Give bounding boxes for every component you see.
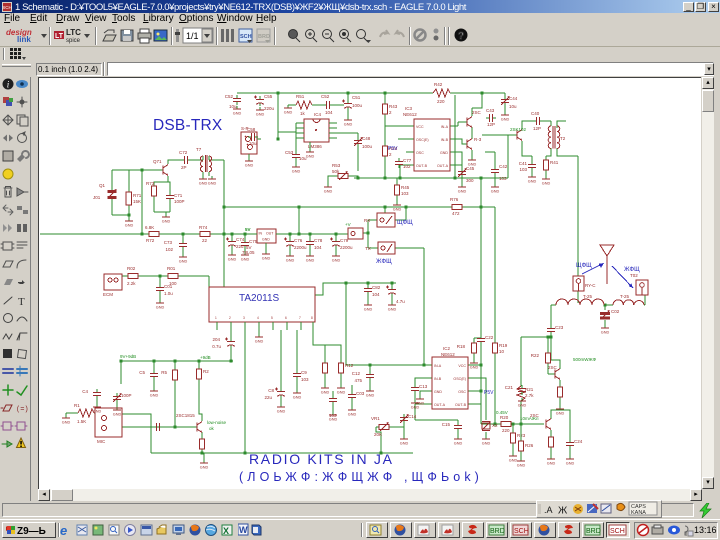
- ground below bus: [200, 460, 209, 470]
- resistor R24 emitter: [558, 384, 563, 400]
- capacitor C82: [364, 285, 381, 297]
- svg-text:103: 103: [301, 377, 309, 382]
- ground IC2: [416, 396, 425, 406]
- wire TA pin R drop: [313, 330, 341, 385]
- resistor R19 in rail: [493, 340, 508, 356]
- svg-text:IC4: IC4: [314, 112, 322, 117]
- svg-text:2: 2: [389, 152, 392, 157]
- svg-text:R74: R74: [199, 225, 208, 230]
- taskbar: [0, 519, 720, 540]
- wire RF amp top drops: [472, 93, 482, 116]
- svg-text:C24: C24: [574, 439, 583, 444]
- wire IC3 left pin stubs: [398, 126, 414, 178]
- variable capacitor C6: [113, 393, 132, 403]
- svg-text:C76: C76: [294, 238, 303, 243]
- help: [455, 29, 468, 42]
- capacitor C79: [330, 234, 353, 253]
- svg-text:2SC1815: 2SC1815: [176, 413, 195, 418]
- wire mixer output vertical: [223, 160, 225, 287]
- svg-text:OSC: OSC: [416, 151, 424, 155]
- wire bottom bus: [151, 452, 413, 454]
- wire mic2 out: [122, 414, 151, 453]
- svg-text:SCH: SCH: [240, 34, 252, 40]
- svg-text:C71: C71: [174, 193, 183, 198]
- transistor Q71: [153, 159, 168, 176]
- blue arrow to TX relay: [612, 266, 633, 288]
- ground C24: [566, 456, 575, 466]
- wire C02 drop: [604, 305, 606, 325]
- capacitor C5 preamp: [139, 370, 158, 380]
- relay K2 TX: [636, 280, 648, 295]
- variable capacitor C14: [400, 414, 417, 424]
- ground C45: [458, 184, 467, 194]
- svg-text:R-3: R-3: [474, 137, 482, 142]
- svg-text:1.5K: 1.5K: [77, 419, 86, 424]
- ground mic bias: [62, 415, 71, 425]
- IME language bar: [536, 500, 662, 518]
- svg-text:DSB-TRX: DSB-TRX: [153, 117, 223, 134]
- ground regulator: [262, 243, 271, 261]
- wire R23 drop: [512, 424, 514, 453]
- capacitor C01: [156, 284, 173, 296]
- svg-text:IC2: IC2: [443, 346, 451, 351]
- svg-text:TX: TX: [365, 246, 371, 251]
- svg-text:J01: J01: [93, 195, 101, 200]
- svg-text:OSC(E): OSC(E): [416, 138, 429, 142]
- svg-text:5: 5: [271, 316, 273, 320]
- ground C14: [400, 436, 409, 446]
- ground C82: [364, 302, 373, 312]
- svg-text:R19: R19: [499, 343, 508, 348]
- svg-text:R20: R20: [500, 415, 509, 420]
- start button: [2, 522, 56, 538]
- wire drop to IC4 pins: [278, 93, 296, 139]
- svg-text:C40: C40: [531, 111, 540, 116]
- svg-text:4: 4: [257, 316, 259, 320]
- svg-text:C03: C03: [356, 391, 365, 396]
- svg-text:R72: R72: [146, 238, 155, 243]
- wire R18 drop: [474, 338, 481, 360]
- wire antenna feed vertical: [577, 156, 579, 276]
- inductor T-25 b: [613, 294, 644, 305]
- resistor R71: [126, 192, 142, 205]
- svg-text:102: 102: [403, 164, 411, 169]
- capacitor C13: [411, 384, 428, 394]
- svg-text:100P: 100P: [121, 393, 132, 398]
- svg-text:C42: C42: [499, 164, 508, 169]
- wire T2 connections: [546, 121, 578, 159]
- ground C21: [518, 398, 527, 408]
- svg-text:R22: R22: [531, 353, 540, 358]
- svg-text:78L05: 78L05: [242, 250, 255, 255]
- wire modulator vertical: [480, 178, 482, 424]
- svg-text:0.7u: 0.7u: [212, 344, 221, 349]
- capacitor C71: [166, 192, 185, 204]
- ground R45: [393, 202, 402, 212]
- svg-text:W: W: [239, 525, 248, 535]
- wire FET branch: [482, 121, 551, 178]
- wire mic2 bias: [66, 399, 117, 415]
- svg-text:50k: 50k: [332, 169, 340, 174]
- antenna ANT1: [600, 245, 614, 284]
- window title bar: [0, 0, 720, 13]
- svg-text:C9: C9: [301, 370, 307, 375]
- wire driver emitter: [559, 380, 561, 406]
- mixer IC3 NE612: [403, 106, 450, 171]
- wire IC4 out to C48 column: [337, 133, 358, 171]
- crystal X2: [482, 421, 498, 431]
- svg-text:103: 103: [499, 176, 507, 181]
- ground R23: [509, 453, 518, 463]
- quick launch icons: [60, 523, 240, 538]
- svg-text:C52: C52: [225, 94, 234, 99]
- wire PA output vertical: [550, 305, 552, 360]
- capacitor C77: [395, 158, 412, 169]
- svg-text:KANA: KANA: [631, 510, 646, 516]
- svg-text:2200u: 2200u: [340, 245, 353, 250]
- svg-text:10: 10: [499, 349, 505, 354]
- ground R18: [470, 360, 479, 370]
- wire 5V bus: [40, 233, 348, 235]
- transformer T7: [196, 147, 212, 172]
- svg-text:C82: C82: [372, 285, 381, 290]
- svg-text:C48: C48: [362, 136, 371, 141]
- stop icon: [415, 30, 426, 41]
- ground R24: [556, 406, 565, 416]
- svg-text:C44: C44: [509, 96, 518, 101]
- ground C12: [366, 388, 375, 398]
- wire T7 grounds: [203, 172, 209, 176]
- ground C75: [241, 252, 250, 262]
- svg-text:TA2011S: TA2011S: [239, 293, 280, 304]
- wire Q1 emitter: [202, 432, 204, 460]
- svg-text:R5: R5: [161, 370, 167, 375]
- resistor R3 emitter: [200, 436, 205, 452]
- ground C81: [388, 302, 397, 312]
- ground R51 left: [284, 105, 296, 115]
- svg-text:6.8K: 6.8K: [145, 225, 154, 230]
- svg-text:IN-B: IN-B: [441, 138, 449, 142]
- ground C76: [286, 253, 295, 263]
- SCH icon: [239, 29, 252, 42]
- svg-text:1k: 1k: [300, 111, 306, 116]
- resistor R42 (in top bus): [433, 82, 450, 104]
- svg-text:IN-A: IN-A: [434, 364, 442, 368]
- wire Q1 base line: [122, 426, 197, 428]
- svg-text:R76: R76: [450, 197, 459, 202]
- resistor R20: [498, 415, 514, 433]
- svg-text:R21: R21: [525, 387, 534, 392]
- svg-text:220: 220: [437, 99, 445, 104]
- audio amp TA2011S: [209, 287, 315, 330]
- resistor R5: [161, 367, 177, 383]
- capacitor C52: [321, 94, 344, 115]
- svg-text:C14: C14: [408, 414, 417, 419]
- transistor Q6: [467, 137, 482, 150]
- ground R25: [547, 456, 556, 466]
- wire RX relay branch: [363, 207, 406, 248]
- wire IC2 right pin stubs: [468, 365, 486, 436]
- svg-text:1.0u: 1.0u: [164, 291, 173, 296]
- svg-text:VCC: VCC: [458, 364, 466, 368]
- svg-text:2.2k: 2.2k: [127, 281, 136, 286]
- wire VXO 5V feed: [298, 207, 300, 234]
- svg-text:C4: C4: [82, 389, 88, 394]
- svg-text:22: 22: [202, 238, 208, 243]
- svg-text:10u: 10u: [249, 141, 257, 146]
- wire relay to coil line: [551, 291, 645, 305]
- svg-text:C21: C21: [505, 385, 514, 390]
- ground C41: [528, 171, 537, 184]
- ground C73: [179, 254, 188, 264]
- relay RX: [364, 213, 395, 227]
- wire TA output drop: [244, 330, 246, 453]
- svg-text:220: 220: [502, 428, 510, 433]
- svg-text:ECM: ECM: [103, 292, 113, 297]
- ground C78: [306, 253, 315, 263]
- wire final emitter: [551, 410, 559, 456]
- ground R11: [321, 385, 330, 395]
- svg-text:C5: C5: [139, 370, 145, 375]
- svg-text:VR1: VR1: [371, 416, 380, 421]
- svg-text:R12: R12: [345, 363, 354, 368]
- svg-text:OUT-A: OUT-A: [434, 403, 446, 407]
- svg-text:C13: C13: [419, 384, 428, 389]
- 1/1 combo: [183, 28, 213, 43]
- svg-text:22u: 22u: [264, 395, 272, 400]
- potentiometer R53: [332, 163, 351, 180]
- resistor R76: [449, 197, 465, 216]
- svg-text:104: 104: [325, 110, 333, 115]
- svg-text:C72: C72: [179, 150, 188, 155]
- svg-text:RX: RX: [364, 218, 370, 223]
- crystal X01: [93, 183, 117, 200]
- svg-text:3: 3: [243, 316, 245, 320]
- svg-text:R73: R73: [146, 181, 155, 186]
- LTC spice logo: [54, 31, 64, 39]
- svg-text:T7: T7: [196, 147, 202, 152]
- capacitor C02b: [329, 391, 337, 418]
- transistor Q1 low-noise: [176, 413, 227, 433]
- svg-text:C02: C02: [611, 309, 620, 314]
- ground C5: [150, 388, 159, 398]
- ground T7 right: [208, 176, 217, 186]
- capacitor C02 ant: [600, 309, 620, 320]
- undo redo grayed: [380, 30, 388, 37]
- svg-text:BRD: BRD: [258, 34, 270, 40]
- svg-text:ЩФЩ: ЩФЩ: [397, 220, 413, 226]
- svg-text:220u: 220u: [264, 106, 275, 111]
- toolbar row 2 (grid button): [0, 47, 720, 61]
- wire Q71 base: [142, 169, 163, 171]
- ground C9: [293, 390, 302, 400]
- svg-text:OUT-B: OUT-B: [455, 403, 467, 407]
- capacitor C23 in PA line: [547, 325, 564, 335]
- blue arrow to RX relay: [582, 263, 604, 274]
- svg-text:R45: R45: [401, 185, 410, 190]
- svg-text:C77: C77: [403, 158, 412, 163]
- svg-text:6: 6: [285, 316, 287, 320]
- svg-text:C23: C23: [555, 325, 564, 330]
- svg-text:link: link: [17, 35, 31, 44]
- svg-text:Ж: Ж: [558, 506, 568, 517]
- resistor R72 in bus: [145, 225, 162, 243]
- svg-text:C12: C12: [352, 371, 361, 376]
- resistor R18: [457, 340, 477, 356]
- svg-text:0.45V: 0.45V: [496, 410, 508, 415]
- svg-text:C73: C73: [164, 240, 173, 245]
- print icon: [138, 33, 151, 39]
- capacitor C04: [212, 330, 235, 361]
- capacitor C53: [285, 138, 307, 161]
- resistor R74 in bus: [197, 225, 213, 243]
- svg-text:?: ?: [458, 31, 464, 42]
- svg-text:100P: 100P: [174, 199, 185, 204]
- wire TA pin C8 drop: [280, 330, 282, 404]
- svg-text:C78: C78: [314, 238, 323, 243]
- wire +V top bus: [237, 93, 505, 112]
- svg-text:Q1: Q1: [99, 183, 106, 188]
- svg-text:10u: 10u: [229, 104, 237, 109]
- ground R26: [517, 458, 526, 468]
- svg-text:R42: R42: [434, 82, 443, 87]
- svg-text:22u: 22u: [236, 244, 244, 249]
- svg-text:+9dB: +9dB: [200, 355, 211, 360]
- wire transistor pair chain: [458, 122, 472, 157]
- resistor R12: [339, 360, 354, 376]
- svg-text:C58: C58: [247, 127, 256, 132]
- wire left crystal rail: [112, 170, 142, 218]
- svg-text:GND: GND: [262, 238, 270, 242]
- svg-text:C41: C41: [519, 161, 528, 166]
- svg-text:MIC: MIC: [97, 439, 106, 444]
- svg-text:C79: C79: [340, 238, 349, 243]
- ground Q6 emitter: [468, 157, 477, 167]
- svg-text:R71: R71: [133, 193, 142, 198]
- svg-text:C75: C75: [249, 239, 258, 244]
- svg-text:R26: R26: [525, 443, 534, 448]
- ground T7 left: [199, 176, 208, 186]
- svg-text:T02: T02: [630, 273, 638, 278]
- vertical scrollbar: [702, 77, 714, 501]
- svg-text:SCH: SCH: [514, 528, 529, 535]
- capacitor C9: [293, 370, 309, 382]
- toolbar row 1: [0, 25, 720, 47]
- left tool palette: [0, 77, 31, 501]
- resistor R11: [323, 360, 328, 376]
- svg-text:X2: X2: [492, 423, 498, 428]
- svg-text:ЩФЩ: ЩФЩ: [576, 263, 592, 269]
- save icon: [121, 30, 133, 41]
- ground C01: [156, 300, 165, 310]
- svg-text:5V: 5V: [245, 227, 251, 232]
- ground below C51: [344, 117, 353, 127]
- relay K1 RX: [573, 276, 596, 291]
- wire preamp collector rail: [121, 361, 233, 384]
- horizontal scrollbar: [38, 489, 702, 501]
- resistor R02: [125, 266, 141, 286]
- capacitor C42: [485, 152, 508, 184]
- svg-text:LTC: LTC: [66, 28, 81, 37]
- variable capacitor C45: [458, 166, 475, 184]
- ground below C55: [256, 107, 265, 117]
- wire preamp drops: [154, 361, 202, 427]
- svg-text:12P: 12P: [533, 126, 541, 131]
- svg-text:4.7u: 4.7u: [396, 299, 405, 304]
- speaker connector SP: [241, 126, 261, 154]
- svg-text:1: 1: [215, 316, 217, 320]
- svg-text:RY-C: RY-C: [585, 283, 596, 288]
- svg-text:C52: C52: [321, 94, 330, 99]
- capacitor C74: [226, 234, 245, 252]
- svg-text:GND: GND: [440, 151, 448, 155]
- ground below SP: [245, 154, 254, 168]
- ground C42: [491, 184, 500, 194]
- svg-text:8: 8: [311, 316, 313, 320]
- svg-text:SCH: SCH: [610, 528, 625, 535]
- svg-text:100u: 100u: [362, 144, 373, 149]
- resistor R21: [517, 386, 534, 401]
- wire PA rail: [494, 270, 496, 424]
- image/export icon: [154, 30, 167, 41]
- svg-text:OUT-B: OUT-B: [416, 164, 428, 168]
- wire R43/R44 column: [385, 93, 406, 178]
- svg-text:LT: LT: [55, 33, 64, 40]
- ground R73: [162, 214, 171, 224]
- wire C24 tap: [559, 410, 570, 424]
- svg-text:7: 7: [299, 316, 301, 320]
- wire IC2 left pin stubs: [415, 365, 432, 420]
- regulator 78L05: [242, 229, 281, 255]
- svg-text:(ЛОЬЖФ:ЖФЩЖФ ,ЩФЬok): (ЛОЬЖФ:ЖФЩЖФ ,ЩФЬok): [239, 470, 483, 484]
- zoom icons: [289, 27, 468, 45]
- resistor R26: [519, 424, 534, 458]
- svg-text:300: 300: [466, 178, 474, 183]
- svg-text:R43: R43: [389, 104, 398, 109]
- ground C79: [332, 253, 341, 263]
- capacitor C4: [82, 389, 101, 399]
- capacitor C81: [386, 286, 405, 305]
- status bar: [0, 501, 720, 519]
- variable capacitor C48: [354, 136, 373, 149]
- svg-text:VCC: VCC: [416, 125, 424, 129]
- svg-text:OUT: OUT: [266, 232, 274, 236]
- wire section frame right: [454, 95, 456, 178]
- svg-text:C55: C55: [264, 94, 273, 99]
- capacitor C44: [501, 96, 518, 109]
- svg-text:2SC: 2SC: [472, 110, 482, 115]
- capacitor C75: [241, 234, 258, 252]
- layers icon: [221, 29, 224, 42]
- ground below C53: [292, 161, 301, 174]
- svg-text:P5V: P5V: [484, 390, 494, 396]
- svg-text:R01: R01: [167, 266, 176, 271]
- svg-text:P5V: P5V: [388, 146, 398, 152]
- svg-text:R1: R1: [74, 403, 80, 408]
- capacitor C03: [348, 385, 365, 407]
- capacitor C43: [486, 108, 496, 127]
- svg-text:IN-B: IN-B: [434, 377, 442, 381]
- capacitor C55: [254, 94, 275, 111]
- svg-text:OSC: OSC: [458, 390, 466, 394]
- svg-text:2.7k: 2.7k: [525, 393, 534, 398]
- resistor R25 final emitter: [549, 434, 554, 450]
- svg-text:104: 104: [372, 292, 380, 297]
- svg-text:R2: R2: [203, 369, 209, 374]
- ground pot: [324, 184, 333, 194]
- resistor R22: [531, 350, 551, 366]
- svg-text:ЖФЩ: ЖФЩ: [376, 259, 392, 265]
